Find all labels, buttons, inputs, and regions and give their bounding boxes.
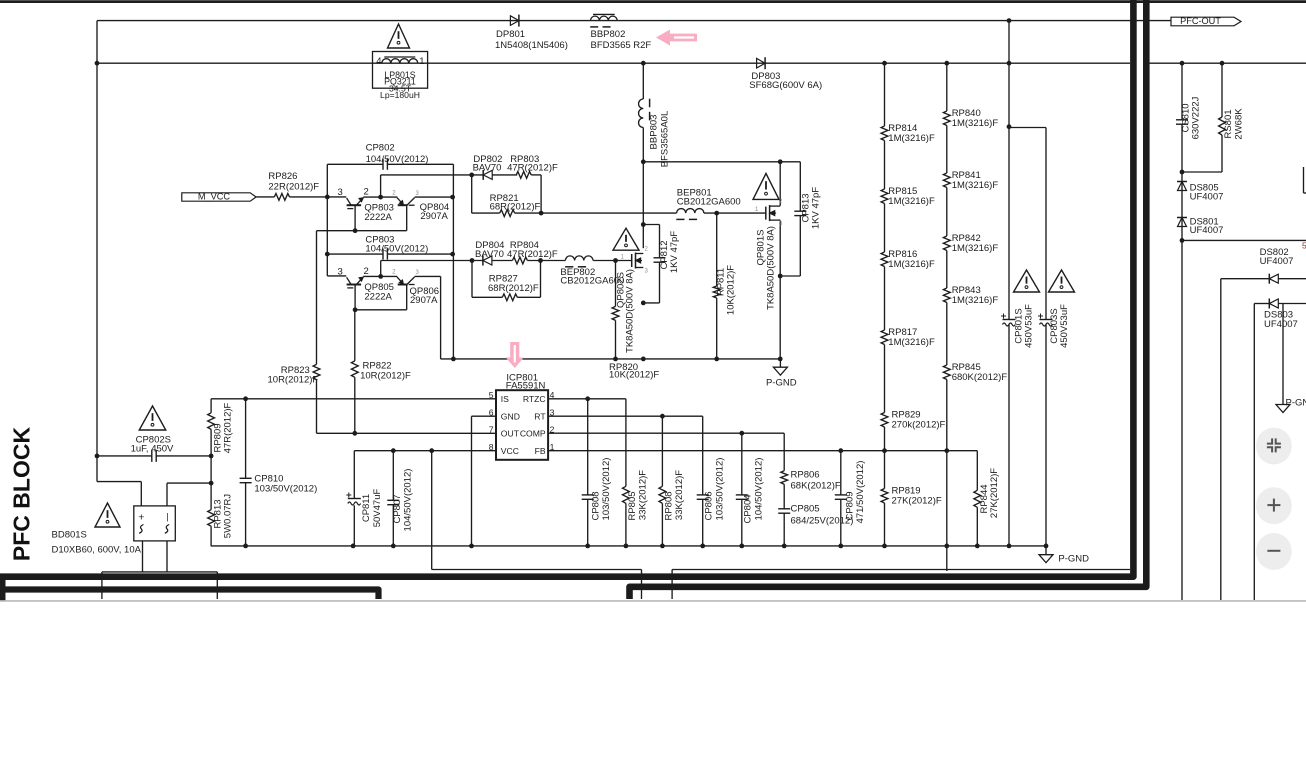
svg-text:5: 5 [1302, 241, 1306, 251]
svg-text:33K(2012)F: 33K(2012)F [674, 470, 685, 520]
svg-text:1M(3216)F: 1M(3216)F [888, 337, 935, 348]
svg-text:GND: GND [501, 412, 520, 422]
svg-text:104/50V(2012): 104/50V(2012) [365, 243, 428, 254]
svg-text:P-GND: P-GND [766, 378, 797, 389]
svg-text:1M(3216)F: 1M(3216)F [888, 133, 935, 144]
svg-text:10R(2012)F: 10R(2012)F [268, 374, 319, 385]
svg-text:BAV70: BAV70 [473, 163, 502, 174]
svg-text:47R(2012)F: 47R(2012)F [507, 163, 558, 174]
svg-text:1M(3216)F: 1M(3216)F [952, 295, 999, 306]
svg-text:2907A: 2907A [410, 295, 438, 306]
svg-text:104/50V(2012): 104/50V(2012) [403, 469, 414, 532]
svg-text:UF4007: UF4007 [1264, 319, 1298, 330]
svg-text:47R(2012)F: 47R(2012)F [223, 402, 234, 453]
svg-text:10R(2012)F: 10R(2012)F [360, 371, 411, 382]
svg-text:BFS3565A0L: BFS3565A0L [660, 111, 671, 168]
svg-text:33K(2012)F: 33K(2012)F [638, 470, 649, 520]
svg-text:2222A: 2222A [364, 291, 392, 302]
svg-text:2: 2 [364, 187, 369, 198]
svg-text:CP805: CP805 [791, 504, 820, 515]
svg-text:270k(2012)F: 270k(2012)F [892, 419, 946, 430]
svg-text:103/50V(2012): 103/50V(2012) [715, 458, 726, 521]
svg-text:RP806: RP806 [791, 470, 820, 481]
svg-text:2W68K: 2W68K [1234, 108, 1245, 140]
svg-text:CP809: CP809 [845, 491, 856, 520]
svg-text:450V53uF: 450V53uF [1059, 304, 1070, 348]
svg-text:FA5591N: FA5591N [506, 380, 546, 391]
svg-text:450V53uF: 450V53uF [1024, 304, 1035, 348]
svg-text:1N5408(1N5406): 1N5408(1N5406) [495, 40, 568, 51]
svg-text:630V222J: 630V222J [1191, 96, 1202, 139]
svg-text:68R(2012)F: 68R(2012)F [488, 283, 539, 294]
svg-text:103/50V(2012): 103/50V(2012) [601, 458, 612, 521]
svg-text:OUT: OUT [501, 429, 520, 439]
svg-text:3: 3 [338, 187, 343, 198]
svg-text:COMP: COMP [520, 429, 546, 439]
svg-text:UF4007: UF4007 [1190, 192, 1224, 203]
svg-text:RTZC: RTZC [523, 394, 546, 404]
svg-text:471/50V(2012): 471/50V(2012) [855, 461, 866, 524]
svg-text:1KV 47pF: 1KV 47pF [811, 187, 822, 229]
svg-text:+: + [138, 512, 144, 524]
svg-text:10K(2012)F: 10K(2012)F [609, 369, 659, 380]
svg-text:680K(2012)F: 680K(2012)F [952, 372, 1008, 383]
svg-text:27K(2012)F: 27K(2012)F [892, 495, 942, 506]
svg-text:DP801: DP801 [496, 29, 525, 40]
svg-text:5W0.07RJ: 5W0.07RJ [223, 494, 234, 539]
svg-text:P-GN: P-GN [1286, 398, 1306, 409]
svg-text:68R(2012)F: 68R(2012)F [490, 202, 541, 213]
svg-text:RP805: RP805 [627, 491, 638, 520]
svg-text:103/50V(2012): 103/50V(2012) [254, 483, 317, 494]
svg-text:1M(3216)F: 1M(3216)F [952, 180, 999, 191]
svg-text:CP811: CP811 [361, 494, 372, 522]
svg-text:CP808: CP808 [591, 491, 602, 520]
svg-text:RP808: RP808 [664, 491, 675, 520]
svg-text:1M(3216)F: 1M(3216)F [952, 118, 999, 129]
svg-text:10K(2012)F: 10K(2012)F [726, 265, 737, 315]
svg-text:2: 2 [364, 266, 369, 277]
svg-text:2907A: 2907A [420, 211, 448, 222]
svg-text:2222A: 2222A [364, 212, 392, 223]
svg-text:BFD3565 R2F: BFD3565 R2F [591, 40, 652, 51]
svg-text:|: | [166, 512, 168, 522]
svg-text:PFC BLOCK: PFC BLOCK [9, 427, 35, 562]
svg-text:4: 4 [376, 56, 381, 67]
svg-text:BBP802: BBP802 [591, 29, 626, 40]
svg-text:1uF, 450V: 1uF, 450V [131, 444, 174, 455]
svg-text:1M(3216)F: 1M(3216)F [888, 259, 935, 270]
svg-text:22R(2012)F: 22R(2012)F [268, 181, 319, 192]
svg-text:VCC: VCC [501, 446, 519, 456]
svg-text:UF4007: UF4007 [1190, 225, 1224, 236]
svg-text:CB2012GA600: CB2012GA600 [560, 275, 624, 286]
svg-text:68K(2012)F: 68K(2012)F [791, 481, 841, 492]
svg-text:RS801: RS801 [1223, 109, 1234, 138]
svg-text:CP802: CP802 [366, 142, 395, 153]
svg-text:1: 1 [419, 56, 424, 67]
svg-text:CP807: CP807 [392, 494, 403, 523]
svg-text:1M(3216)F: 1M(3216)F [952, 243, 999, 254]
svg-text:FB: FB [535, 446, 546, 456]
svg-text:P-GND: P-GND [1058, 554, 1089, 565]
svg-text:CP804: CP804 [743, 494, 754, 523]
svg-text:Lp=180uH: Lp=180uH [380, 90, 420, 100]
svg-text:BAV70: BAV70 [475, 249, 504, 260]
svg-text:UF4007: UF4007 [1260, 256, 1294, 267]
svg-text:PFC-OUT: PFC-OUT [1180, 16, 1221, 26]
svg-text:TK8A50D(500V 8A): TK8A50D(500V 8A) [625, 269, 636, 353]
svg-text:SF68G(600V 6A): SF68G(600V 6A) [749, 80, 822, 91]
svg-text:CP806: CP806 [704, 491, 715, 520]
svg-text:50V47uF: 50V47uF [372, 489, 383, 528]
svg-text:47R(2012)F: 47R(2012)F [507, 249, 558, 260]
svg-text:1M(3216)F: 1M(3216)F [888, 196, 935, 207]
svg-text:D10XB60, 600V, 10A: D10XB60, 600V, 10A [52, 545, 142, 556]
svg-text:104/50V(2012): 104/50V(2012) [754, 458, 765, 521]
svg-text:104/50V(2012): 104/50V(2012) [366, 154, 429, 165]
svg-text:CB2012GA600: CB2012GA600 [677, 196, 741, 207]
svg-text:IS: IS [501, 394, 509, 404]
svg-text:BD801S: BD801S [52, 530, 87, 541]
svg-text:M_VCC: M_VCC [198, 191, 231, 201]
svg-text:BBP803: BBP803 [649, 115, 660, 150]
svg-text:27K(2012)F: 27K(2012)F [989, 468, 1000, 518]
svg-text:RT: RT [534, 412, 546, 422]
svg-text:TK8A50D(500V 8A): TK8A50D(500V 8A) [766, 226, 777, 310]
svg-text:1KV 47pF: 1KV 47pF [669, 231, 680, 273]
